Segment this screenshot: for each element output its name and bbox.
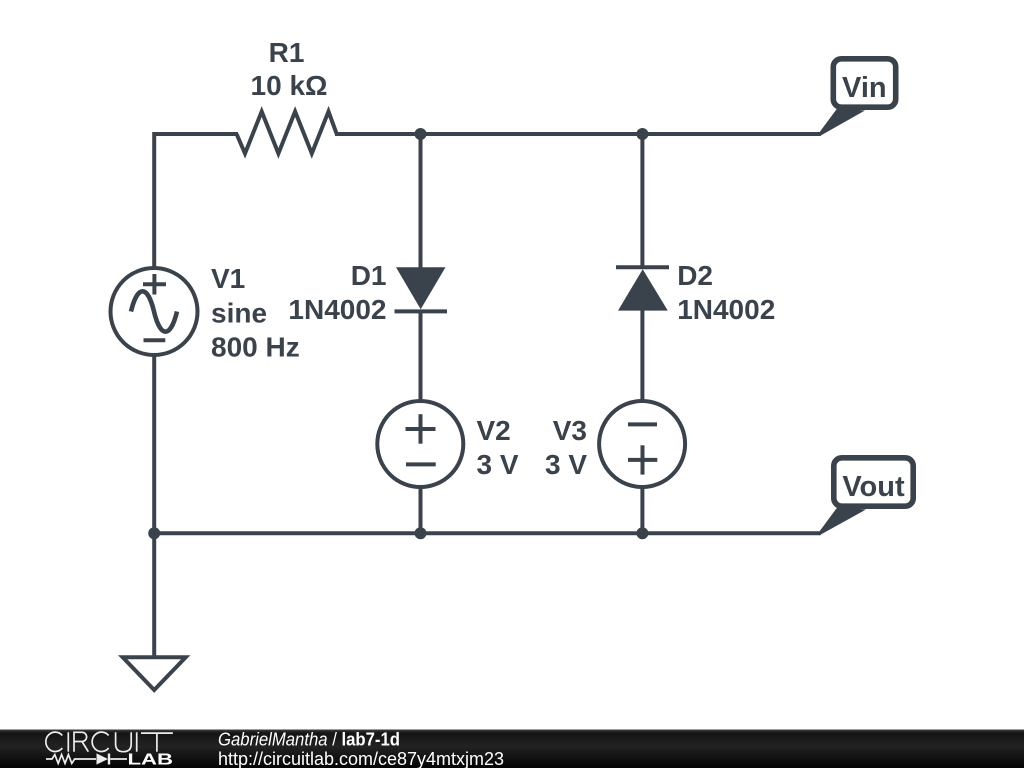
svg-text:R1: R1 xyxy=(269,37,305,68)
node: junction dot bottom-left xyxy=(148,527,160,539)
svg-text:sine: sine xyxy=(211,298,267,329)
svg-text:V2: V2 xyxy=(477,415,511,446)
voltage source V2 xyxy=(377,401,463,487)
wire: V2 minus to bottom rail xyxy=(419,488,423,533)
net flag Vout xyxy=(820,458,914,536)
wire: D2 anode to V3 xyxy=(640,310,644,401)
wire: left rail V1 to bottom xyxy=(152,356,156,533)
wire: top rail right segment xyxy=(335,132,821,136)
svg-text:Vin: Vin xyxy=(842,72,887,104)
svg-text:3 V: 3 V xyxy=(477,449,519,480)
svg-text:GabrielMantha / lab7-1d: GabrielMantha / lab7-1d xyxy=(218,730,400,750)
svg-text:D2: D2 xyxy=(677,260,713,291)
diode D2 xyxy=(616,267,669,310)
wire: bottom rail xyxy=(154,531,821,535)
svg-text:1N4002: 1N4002 xyxy=(677,294,775,325)
wire: D2 cathode branch xyxy=(640,134,644,268)
wire: D1 anode branch xyxy=(419,134,423,269)
node: junction dot R1/D1/Vin rail xyxy=(415,128,427,140)
wire: top rail left segment xyxy=(154,134,238,268)
ground xyxy=(123,657,186,690)
svg-text:http://circuitlab.com/ce87y4mt: http://circuitlab.com/ce87y4mtxjm23 xyxy=(218,749,504,768)
node: junction dot V3 bottom xyxy=(636,527,648,539)
wire: ground stub xyxy=(152,533,156,657)
svg-text:800 Hz: 800 Hz xyxy=(211,332,300,363)
svg-text:3 V: 3 V xyxy=(545,449,587,480)
svg-text:1N4002: 1N4002 xyxy=(288,294,386,325)
svg-text:LAB: LAB xyxy=(128,752,174,768)
footer bar xyxy=(0,730,1024,768)
svg-text:10 kΩ: 10 kΩ xyxy=(251,70,328,101)
voltage source V1 (sine) xyxy=(111,268,198,355)
svg-text:Vout: Vout xyxy=(842,471,905,503)
CircuitLab logo: CIRCUIT wordmark xyxy=(46,732,173,752)
voltage source V3 xyxy=(599,401,685,487)
node: junction dot V2 bottom xyxy=(415,527,427,539)
svg-text:D1: D1 xyxy=(351,260,387,291)
diode D1 xyxy=(395,267,448,311)
svg-text:V1: V1 xyxy=(211,263,245,294)
net flag Vin xyxy=(820,59,896,136)
CircuitLab logo: resistor-diode symbol and LAB xyxy=(46,754,127,765)
svg-text:V3: V3 xyxy=(553,415,587,446)
wire: D1 cathode to V2 xyxy=(419,310,423,401)
resistor R1 xyxy=(237,112,337,154)
wire: V3 plus to bottom rail xyxy=(640,488,644,533)
node: junction dot D2 top xyxy=(636,128,648,140)
